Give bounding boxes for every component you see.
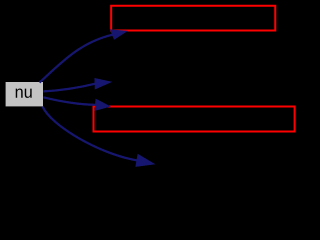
node box middle (red) — [94, 107, 295, 132]
arrowhead edge 1 — [111, 30, 127, 39]
wire edge nu to top box — [40, 35, 113, 83]
node nu (gray box) — [6, 82, 43, 106]
node nu label — [16, 88, 32, 97]
arrowhead edge 2 — [95, 79, 111, 89]
wire edge nu to hidden node A — [43, 84, 95, 92]
arrowhead edge 3 — [95, 99, 109, 110]
arrowhead edge 4 — [136, 155, 154, 167]
node box top (red) — [111, 6, 275, 31]
wire edge nu to middle box — [43, 97, 95, 105]
wire edge nu to hidden node B — [43, 107, 138, 161]
